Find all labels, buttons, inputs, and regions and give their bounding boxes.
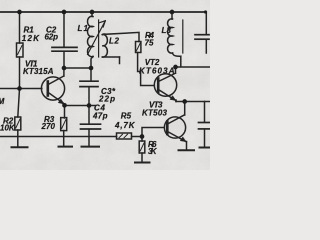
resistor R3: [61, 106, 67, 146]
wire VT3 collector riser: [184, 102, 186, 116]
transformer core line L1/L2: [98, 20, 100, 57]
svg-text:10K: 10K: [0, 124, 16, 133]
transistor VT3 KT503: [164, 115, 186, 150]
wire VT1 emitter to C3/C4 tap: [65, 105, 96, 107]
resistor R2: [15, 89, 21, 147]
capacitor C4: [81, 107, 101, 147]
node VT2 emitter / VT3 collector: [182, 99, 187, 104]
node C3/C4 tap: [87, 103, 92, 108]
wire VT1 base rail from left edge: [0, 88, 42, 90]
node tank right L1/C3: [89, 66, 94, 71]
wire VT2 collector node to antenna (y67): [176, 66, 211, 68]
resistor R1: [17, 13, 24, 88]
svg-text:³М: ³М: [0, 97, 5, 106]
svg-text:KT315A: KT315A: [23, 67, 54, 76]
capacitor C6 output bypass: [199, 102, 211, 148]
junction nodes: [17, 10, 207, 139]
capacitor C2: [52, 13, 77, 68]
resistor R5: [117, 133, 132, 139]
node rail-C2: [62, 10, 67, 15]
capacitor C3: [80, 69, 98, 105]
ground under R6: [135, 162, 150, 164]
inductor L2: [102, 34, 119, 64]
wire top supply rail: [0, 11, 205, 13]
ground under C4: [82, 146, 100, 148]
svg-text:L2: L2: [109, 37, 120, 46]
node VT1 base divider: [17, 86, 22, 91]
svg-text:KT503: KT503: [142, 109, 168, 118]
core line L3: [182, 20, 184, 53]
ground under VT3 emitter: [179, 149, 195, 151]
node VT2 collector: [173, 65, 178, 70]
svg-text:L3: L3: [162, 26, 172, 35]
wire VT3 base link: [132, 128, 165, 137]
VT1 emitter arrowhead: [58, 99, 64, 104]
svg-text:47p: 47p: [92, 112, 108, 121]
svg-text:22p: 22p: [98, 95, 115, 104]
ground under C6: [200, 147, 211, 149]
paper background: [0, 0, 210, 170]
wire L2 top to R4: [105, 32, 140, 41]
resistor R6: [139, 137, 145, 162]
svg-text:R5: R5: [121, 112, 132, 121]
ground under R2: [12, 146, 28, 148]
wire collector node to tank (y68): [64, 67, 91, 69]
transistor VT2 KT603A: [154, 68, 176, 102]
node rail corner: [204, 10, 207, 13]
svg-text:12K: 12K: [22, 34, 40, 43]
svg-text:75: 75: [145, 39, 155, 48]
svg-text:KT603A: KT603A: [139, 67, 175, 76]
svg-text:L1: L1: [78, 24, 89, 33]
ground under R3: [59, 146, 73, 148]
VT2 emitter arrowhead: [170, 96, 176, 101]
capacitor C5 antenna coupling: [195, 35, 209, 53]
node VT1 emitter: [62, 103, 67, 108]
node rail-R1: [17, 10, 22, 15]
inductor L3: [168, 13, 181, 67]
wire right edge drop from rail corner: [205, 12, 207, 34]
svg-text:270: 270: [41, 122, 56, 131]
node R5/R6: [140, 134, 145, 139]
wire bottom long modulation bus: [0, 136, 117, 138]
wire VT2 emitter bus (y101.5): [176, 101, 210, 103]
svg-text:3K: 3K: [148, 147, 158, 156]
resistor R4: [136, 42, 155, 86]
VT3 emitter arrowhead: [180, 137, 186, 142]
inductor L1 (variable): [88, 13, 93, 68]
node rail-L1: [90, 10, 95, 15]
L1 tuning arrow: [88, 21, 106, 55]
svg-text:4,7K: 4,7K: [114, 121, 136, 130]
node collector-tank left: [62, 66, 67, 71]
node rail-L3: [170, 10, 175, 15]
transistor VT1 KT315A: [41, 69, 64, 104]
svg-text:62p: 62p: [45, 33, 59, 42]
